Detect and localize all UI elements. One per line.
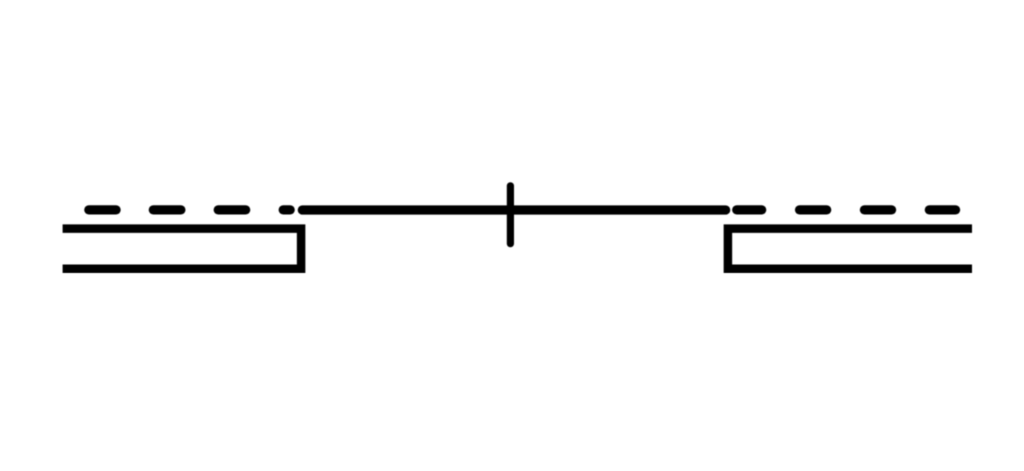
right dashed line xyxy=(732,205,960,214)
left dashed line xyxy=(84,205,295,214)
left open rectangle (portal) xyxy=(63,229,302,269)
right open rectangle (portal) xyxy=(728,229,972,269)
center tick mark xyxy=(507,182,514,247)
center solid line xyxy=(298,205,731,214)
